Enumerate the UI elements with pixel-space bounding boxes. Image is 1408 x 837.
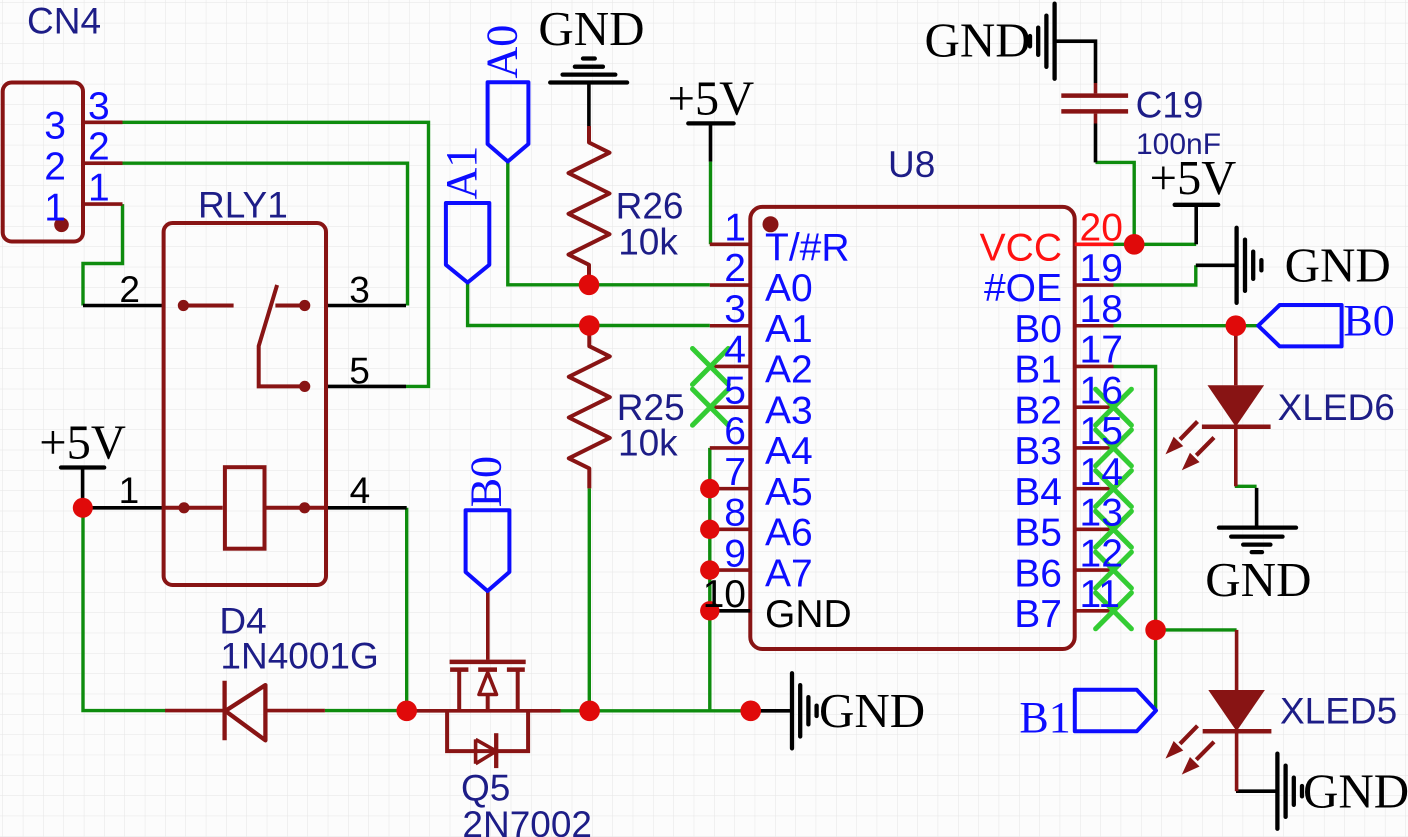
svg-text:B7: B7 [1014, 593, 1062, 636]
svg-text:A1: A1 [765, 308, 813, 351]
svg-text:10k: 10k [618, 423, 678, 464]
svg-text:5: 5 [349, 350, 370, 391]
svg-text:6: 6 [724, 410, 746, 453]
svg-text:19: 19 [1080, 247, 1123, 290]
svg-text:VCC: VCC [980, 227, 1062, 270]
svg-text:B1: B1 [1019, 693, 1070, 742]
svg-text:GND: GND [765, 593, 852, 636]
svg-text:3: 3 [44, 105, 66, 148]
svg-text:16: 16 [1080, 369, 1123, 412]
svg-text:15: 15 [1080, 410, 1123, 453]
svg-text:C19: C19 [1136, 85, 1204, 126]
svg-text:8: 8 [724, 492, 746, 535]
svg-text:17: 17 [1080, 329, 1123, 372]
svg-text:1: 1 [44, 186, 66, 229]
svg-text:11: 11 [1080, 573, 1121, 616]
svg-text:GND: GND [538, 1, 644, 56]
svg-text:4: 4 [724, 329, 746, 372]
svg-text:+5V: +5V [39, 417, 126, 470]
svg-text:GND: GND [925, 13, 1031, 68]
svg-text:12: 12 [1080, 532, 1123, 575]
svg-text:U8: U8 [888, 144, 935, 185]
svg-text:3: 3 [724, 288, 746, 331]
svg-text:4: 4 [350, 470, 371, 511]
svg-text:CN4: CN4 [27, 1, 101, 42]
svg-text:3: 3 [349, 270, 370, 311]
svg-text:A3: A3 [765, 389, 813, 432]
svg-text:#OE: #OE [984, 267, 1062, 310]
svg-text:GND: GND [1303, 763, 1408, 818]
svg-text:9: 9 [724, 532, 746, 575]
svg-text:B3: B3 [1014, 430, 1062, 473]
svg-text:3: 3 [88, 85, 110, 128]
svg-text:B0: B0 [1343, 296, 1394, 345]
svg-text:B5: B5 [1014, 512, 1062, 555]
svg-text:XLED6: XLED6 [1278, 387, 1395, 428]
svg-text:A4: A4 [765, 430, 813, 473]
svg-text:2: 2 [88, 126, 110, 169]
svg-text:A2: A2 [765, 349, 813, 392]
svg-text:20: 20 [1080, 207, 1123, 250]
svg-text:GND: GND [1285, 238, 1391, 293]
svg-text:A0: A0 [478, 25, 527, 79]
svg-text:7: 7 [724, 451, 746, 494]
svg-text:1: 1 [119, 470, 140, 511]
svg-text:2: 2 [724, 247, 746, 290]
svg-text:1N4001G: 1N4001G [220, 636, 378, 677]
svg-text:B1: B1 [1014, 349, 1062, 392]
svg-text:B6: B6 [1014, 552, 1062, 595]
svg-text:A0: A0 [765, 267, 813, 310]
svg-text:A7: A7 [765, 552, 813, 595]
svg-text:GND: GND [1205, 552, 1311, 607]
svg-text:RLY1: RLY1 [198, 185, 288, 226]
svg-text:2N7002: 2N7002 [462, 804, 592, 837]
svg-text:10k: 10k [618, 221, 678, 262]
svg-text:2: 2 [44, 145, 66, 188]
svg-text:A1: A1 [437, 146, 486, 200]
svg-text:10: 10 [703, 573, 746, 616]
svg-text:+5V: +5V [1150, 152, 1237, 205]
svg-text:B4: B4 [1014, 471, 1062, 514]
svg-text:T/#R: T/#R [765, 227, 850, 270]
svg-text:+5V: +5V [668, 73, 755, 126]
svg-text:1: 1 [88, 167, 110, 210]
svg-text:1: 1 [724, 207, 746, 250]
svg-text:A5: A5 [765, 471, 813, 514]
svg-text:13: 13 [1080, 492, 1123, 535]
svg-text:18: 18 [1080, 288, 1123, 331]
svg-text:14: 14 [1080, 451, 1123, 494]
svg-text:GND: GND [819, 683, 925, 738]
svg-text:A6: A6 [765, 512, 813, 555]
svg-text:2: 2 [119, 269, 140, 310]
svg-text:B0: B0 [1014, 308, 1062, 351]
svg-text:B0: B0 [462, 456, 511, 507]
svg-text:XLED5: XLED5 [1280, 691, 1397, 732]
svg-text:B2: B2 [1014, 389, 1062, 432]
svg-text:5: 5 [724, 369, 746, 412]
svg-text:Q5: Q5 [461, 768, 510, 809]
